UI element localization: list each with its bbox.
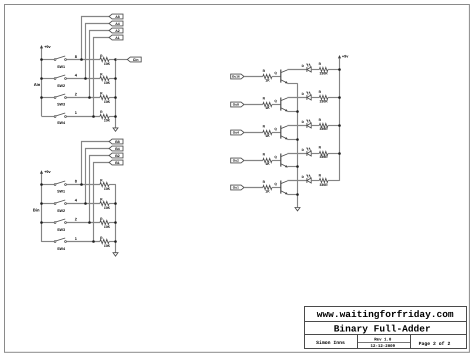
title block frame — [305, 307, 467, 349]
wire tag B1 to row — [94, 163, 110, 242]
junction A bus row 3 — [40, 96, 43, 99]
svg-text:330R: 330R — [319, 99, 328, 103]
resistor R 330R (row 2) — [319, 90, 340, 103]
wire emitter row 2 — [288, 111, 298, 113]
svg-text:Ou4: Ou4 — [233, 131, 239, 135]
node tag Ou2 — [231, 158, 244, 163]
junction A row 2 tag wire — [84, 77, 87, 80]
wire tag A4 to row — [86, 24, 110, 79]
svg-text:10K: 10K — [104, 187, 111, 191]
svg-text:SW4: SW4 — [57, 247, 66, 251]
ground B bank — [113, 253, 118, 256]
junction rail row 3 — [338, 124, 341, 127]
svg-text:SW4: SW4 — [57, 121, 66, 125]
svg-text:Page 2 of 2: Page 2 of 2 — [419, 341, 451, 347]
svg-text:Ou2: Ou2 — [233, 159, 239, 163]
LED D2 — [302, 91, 312, 100]
junction rail row 4 — [338, 152, 341, 155]
svg-text:10K: 10K — [104, 62, 111, 66]
LED D5 — [302, 174, 312, 183]
junction B row 4 tag wire — [92, 240, 95, 243]
svg-text:SW2: SW2 — [57, 84, 65, 88]
node tag B2 — [109, 153, 123, 158]
wire base row 5 — [244, 187, 263, 189]
resistor R 1K (row 3) — [263, 125, 281, 139]
wire LED to resistor row 3 — [311, 125, 319, 127]
junction B bus row 2 — [40, 202, 43, 205]
wire A bus vertical — [41, 60, 43, 116]
wire LED to resistor row 4 — [311, 153, 319, 155]
node tag A1 — [109, 35, 123, 40]
resistor R 330R (row 1) — [319, 62, 340, 75]
resistor R 10K (B row 3) — [100, 217, 116, 229]
svg-text:330R: 330R — [319, 72, 328, 76]
wire tag A8 to row — [82, 17, 110, 60]
wire emitter row 5 — [288, 194, 298, 196]
svg-text:12-12-2009: 12-12-2009 — [371, 344, 396, 349]
resistor R 10K (A row 3) — [100, 92, 116, 104]
wire base row 2 — [244, 104, 263, 106]
junction emitter bus row 2 — [296, 110, 299, 113]
junction rail row 1 — [338, 68, 341, 71]
wire LED to resistor row 5 — [311, 180, 319, 182]
svg-text:10K: 10K — [104, 100, 111, 104]
svg-text:Ou16: Ou16 — [232, 75, 240, 79]
resistor R 10K (A row 1) — [100, 54, 116, 66]
wire emitter row 4 — [288, 166, 298, 168]
svg-text:SW3: SW3 — [57, 103, 65, 107]
svg-text:Binary Full-Adder: Binary Full-Adder — [334, 323, 431, 334]
svg-text:Rev 1.0: Rev 1.0 — [374, 337, 392, 342]
node tag Ou1 — [231, 185, 244, 190]
svg-text:A8: A8 — [115, 15, 120, 19]
resistor R 10K (A row 4) — [100, 110, 116, 122]
switch SW3 (A bank) — [41, 94, 100, 107]
junction rail row 2 — [338, 96, 341, 99]
node tag A4 — [109, 21, 123, 26]
wire A pulldown vertical — [115, 60, 117, 128]
node tag B4 — [109, 146, 123, 151]
transistor Q5 — [274, 181, 287, 195]
LED D3 — [302, 119, 312, 128]
resistor R 330R (row 4) — [319, 146, 340, 159]
switch SW2 (A bank) — [41, 75, 100, 88]
svg-text:10K: 10K — [104, 225, 111, 229]
svg-text:1K: 1K — [265, 162, 270, 166]
svg-text:A1: A1 — [115, 36, 120, 40]
junction emitter bus row 3 — [296, 138, 299, 141]
wire collector row 1 — [288, 69, 307, 71]
resistor R 330R (row 3) — [319, 118, 340, 131]
svg-text:+9v: +9v — [44, 170, 51, 174]
svg-text:10K: 10K — [104, 118, 111, 122]
svg-text:A2: A2 — [115, 29, 120, 33]
switch SW3 (B bank) — [41, 219, 100, 232]
junction B resistor row 2 — [114, 202, 117, 205]
wire tag A1 to row — [94, 38, 110, 117]
node tag Cin — [127, 57, 141, 62]
junction A resistor row 2 — [114, 77, 117, 80]
svg-text:B8: B8 — [115, 140, 120, 144]
resistor R 10K (B row 1) — [100, 179, 116, 191]
node tag A2 — [109, 28, 123, 33]
svg-text:330R: 330R — [319, 183, 328, 187]
transistor Q2 — [274, 98, 287, 112]
junction B bus row 3 — [40, 221, 43, 224]
junction B resistor row 3 — [114, 221, 117, 224]
power +9v B bank — [40, 170, 52, 184]
resistor R 10K (B row 2) — [100, 198, 116, 210]
svg-text:Cin: Cin — [133, 58, 139, 62]
wire emitter row 1 — [288, 83, 298, 85]
node tag Ou16 — [231, 74, 244, 79]
LED D4 — [302, 147, 312, 156]
junction A bus row 2 — [40, 77, 43, 80]
ground emitter bus — [295, 208, 300, 211]
wire B bus vertical — [41, 185, 43, 242]
transistor Q1 — [274, 70, 287, 84]
junction A row 3 tag wire — [88, 96, 91, 99]
svg-text:B4: B4 — [115, 147, 120, 151]
svg-text:B2: B2 — [115, 154, 120, 158]
wire tag B8 to row — [82, 142, 110, 185]
svg-text:B1: B1 — [115, 161, 120, 165]
svg-text:1K: 1K — [265, 78, 270, 82]
LED D1 — [302, 63, 312, 72]
node tag B1 — [109, 160, 123, 165]
svg-text:+9v: +9v — [342, 55, 349, 59]
wire tag A2 to row — [90, 31, 110, 98]
wire emitter bus vertical — [297, 83, 299, 207]
junction emitter bus row 4 — [296, 165, 299, 168]
wire tag B2 to row — [90, 156, 110, 223]
wire B pulldown vertical — [115, 185, 117, 253]
wire base row 3 — [244, 132, 263, 134]
junction B resistor row 4 — [114, 240, 117, 243]
resistor R 330R (row 5) — [319, 174, 340, 187]
power +9v LED rail — [338, 55, 349, 59]
wire LED to resistor row 1 — [311, 69, 319, 71]
node tag Ou8 — [231, 102, 244, 107]
power +9v A bank — [40, 45, 52, 60]
node tag Ou4 — [231, 130, 244, 135]
svg-text:10K: 10K — [104, 81, 111, 85]
junction A row 1 tag wire — [80, 58, 83, 61]
svg-text:Ain: Ain — [34, 82, 41, 87]
resistor R 1K (row 2) — [263, 97, 281, 111]
svg-text:1K: 1K — [265, 190, 270, 194]
svg-text:Simon Inns: Simon Inns — [316, 340, 345, 346]
svg-text:Ou1: Ou1 — [233, 186, 239, 190]
junction A resistor row 4 — [114, 115, 117, 118]
switch SW1 (A bank) — [41, 56, 100, 69]
svg-text:1K: 1K — [265, 134, 270, 138]
wire +9v rail vertical — [339, 58, 341, 181]
wire collector row 2 — [288, 97, 307, 99]
junction A bus row 1 — [40, 58, 43, 61]
wire emitter row 3 — [288, 139, 298, 141]
wire Cin stub — [116, 59, 127, 61]
svg-text:10K: 10K — [104, 206, 111, 210]
junction emitter bus row 5 — [296, 193, 299, 196]
wire base row 4 — [244, 160, 263, 162]
resistor R 1K (row 4) — [263, 152, 281, 166]
wire base row 1 — [244, 76, 263, 78]
junction A resistor row 3 — [114, 96, 117, 99]
junction B row 2 tag wire — [84, 202, 87, 205]
resistor R 1K (row 5) — [263, 180, 281, 194]
svg-text:SW1: SW1 — [57, 190, 65, 194]
svg-text:10K: 10K — [104, 244, 111, 248]
svg-text:SW1: SW1 — [57, 65, 65, 69]
transistor Q3 — [274, 126, 287, 140]
node tag B8 — [109, 139, 123, 144]
switch SW1 (B bank) — [41, 181, 100, 194]
wire collector row 5 — [288, 180, 307, 182]
switch SW4 (B bank) — [41, 238, 100, 251]
svg-text:SW3: SW3 — [57, 228, 65, 232]
transistor Q4 — [274, 154, 287, 168]
wire LED to resistor row 2 — [311, 97, 319, 99]
svg-text:+9v: +9v — [44, 45, 51, 49]
switch SW4 (A bank) — [41, 113, 100, 125]
junction A row 4 tag wire — [92, 115, 95, 118]
switch SW2 (B bank) — [41, 200, 100, 213]
resistor R 10K (B row 4) — [100, 236, 116, 248]
resistor R 1K (row 1) — [263, 69, 281, 83]
svg-text:Ou8: Ou8 — [233, 103, 239, 107]
junction B row 3 tag wire — [88, 221, 91, 224]
junction B bus row 1 — [40, 183, 43, 186]
ground A bank — [113, 128, 118, 131]
wire collector row 4 — [288, 153, 307, 155]
junction A resistor row 1 — [114, 58, 117, 61]
svg-text:330R: 330R — [319, 127, 328, 131]
junction B row 1 tag wire — [80, 183, 83, 186]
svg-text:SW2: SW2 — [57, 209, 65, 213]
svg-text:www.waitingforfriday.com: www.waitingforfriday.com — [317, 309, 454, 320]
svg-text:330R: 330R — [319, 155, 328, 159]
wire tag B4 to row — [86, 149, 110, 204]
resistor R 10K (A row 2) — [100, 73, 116, 85]
svg-text:Bin: Bin — [33, 208, 40, 213]
svg-text:A4: A4 — [115, 22, 120, 26]
svg-text:1K: 1K — [265, 106, 270, 110]
wire collector row 3 — [288, 125, 307, 127]
node tag A8 — [109, 14, 123, 19]
